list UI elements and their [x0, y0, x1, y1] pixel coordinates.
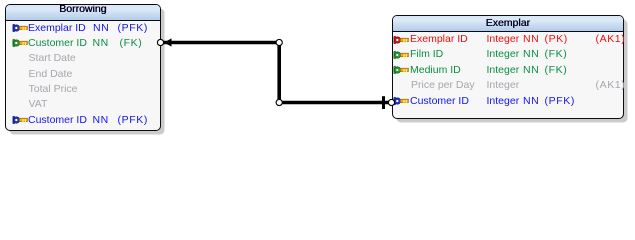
attribute Borrowing.VAT [29, 98, 48, 111]
attribute Borrowing.End Date [29, 68, 73, 81]
attribute Borrowing.Customer ID NN (PFK) [28, 114, 87, 127]
attribute Exemplar.Customer ID key icon (blue PFK key) [393, 96, 409, 106]
attribute Borrowing.Exemplar ID NN (PFK) [28, 22, 86, 35]
attribute Exemplar.Film ID key icon (green FK key) [393, 50, 409, 60]
wire corner2->Exemplar horizontal segment [279, 101, 390, 105]
vertex circle at Borrowing edge [157, 39, 163, 45]
cardinality bar near Exemplar end [382, 96, 385, 109]
attribute Borrowing.Start Date [29, 52, 76, 65]
attribute Exemplar.Film ID Integer NN (FK) [410, 48, 443, 61]
attribute Borrowing.Total Price [29, 83, 78, 96]
wire corner1->corner2 vertical segment [277, 43, 281, 103]
vertex circle at corner1 [276, 39, 282, 45]
attribute Borrowing.Customer ID NN (FK) [28, 37, 87, 50]
entity Borrowing header [6, 5, 160, 21]
entity Borrowing [5, 4, 161, 131]
vertex circle at Exemplar edge [388, 99, 394, 105]
attribute Exemplar.Customer ID Integer NN (PFK) [410, 95, 469, 108]
entity Exemplar [392, 15, 625, 119]
entity Exemplar header [393, 16, 624, 32]
arrowhead at Borrowing end (points left) [164, 38, 172, 46]
attribute Borrowing.Exemplar ID key icon (blue PFK key) [12, 23, 28, 33]
attribute Borrowing.Customer ID key icon (green FK key) [12, 38, 28, 48]
attribute Exemplar.Medium ID Integer NN (FK) [410, 64, 461, 77]
vertex circle at corner2 [276, 99, 282, 105]
attribute Exemplar.Medium ID key icon (green FK key) [393, 65, 409, 75]
attribute Exemplar.Exemplar ID Integer NN (PK) (AK1) [410, 33, 468, 46]
attribute Exemplar.Exemplar ID key icon (red PK key) [393, 35, 409, 45]
wire Borrowing->corner1 horizontal segment [163, 41, 279, 45]
attribute Borrowing.Customer ID (2) key icon (blue PFK key) [12, 115, 28, 125]
relationship connector overlay [0, 0, 635, 140]
attribute Exemplar.Price per Day Integer (AK1) [411, 79, 475, 92]
